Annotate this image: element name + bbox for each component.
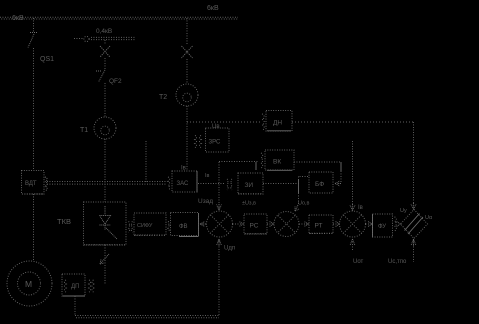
vertical to phase unit — [413, 122, 415, 203]
arrow mark on stub — [100, 254, 109, 264]
wire QF1 to ZAS y183 — [47, 181, 167, 183]
bus 6kV top — [0, 16, 238, 18]
stub vertical x146 — [145, 141, 147, 183]
svg-text:Iв: Iв — [205, 173, 210, 179]
summer circle2 — [274, 212, 299, 237]
box FV — [171, 213, 199, 236]
svg-text:Uзад: Uзад — [198, 198, 213, 205]
wire DP down — [74, 296, 76, 315]
winding bracket right of VDT — [45, 177, 47, 191]
svg-text:ЗАС: ЗАС — [177, 181, 189, 187]
svg-text:Uα: Uα — [425, 215, 433, 221]
wire drop left — [33, 18, 35, 32]
coupling before ZI — [227, 179, 228, 190]
coupling brackets right of DP — [89, 280, 91, 292]
coupling SIFU-FV — [168, 222, 169, 232]
bottom feedback double line — [75, 315, 219, 317]
feedback up from bottom — [218, 239, 220, 315]
box FU — [373, 214, 393, 237]
wire ZAS to ZI — [198, 183, 224, 185]
box VDT (QF1 cell) — [22, 171, 45, 195]
svg-text:ДН: ДН — [273, 120, 282, 127]
svg-text:ЗРС: ЗРС — [209, 140, 222, 146]
circle3 top input — [352, 141, 354, 204]
wire T2 down — [186, 106, 188, 170]
VK right wire — [294, 161, 341, 163]
svg-text:М: М — [25, 279, 32, 289]
bracket VK — [261, 153, 263, 168]
wire T1 down — [104, 139, 106, 202]
breaker X mid — [100, 46, 110, 57]
box VK — [265, 150, 294, 170]
svg-text:6кВ: 6кВ — [207, 5, 219, 12]
BF left wire — [299, 176, 309, 178]
transformer T1 — [94, 117, 116, 139]
box SIFU — [134, 213, 166, 235]
Uzad arrow from VK line — [218, 162, 220, 203]
svg-text:QS1: QS1 — [40, 56, 54, 63]
box ZAS — [172, 171, 197, 192]
svg-text:Uдп: Uдп — [224, 246, 235, 252]
svg-text:Uу: Uу — [400, 208, 407, 214]
wire drop mid (0.4kV) — [104, 40, 106, 45]
svg-text:Uс,тпо: Uс,тпо — [388, 259, 407, 265]
summer circle3 — [340, 211, 366, 237]
phase shifter diamond — [401, 210, 428, 239]
circle3 output — [366, 223, 372, 225]
TV output stub — [104, 245, 106, 284]
vertical down to circle2 — [298, 179, 300, 193]
winding inside DP left — [64, 280, 66, 292]
svg-text:Iв: Iв — [181, 166, 186, 172]
svg-text:Т2: Т2 — [159, 94, 167, 101]
terminal circle on 0.4kV bus — [84, 36, 89, 41]
bracket DN — [262, 114, 264, 130]
svg-text:6кВ: 6кВ — [12, 15, 24, 22]
box DN — [266, 111, 292, 132]
arrow circle1 to FV — [200, 222, 206, 227]
voltage sensor line y122 — [187, 121, 260, 123]
svg-text:Uв: Uв — [212, 124, 220, 130]
svg-text:БФ: БФ — [315, 181, 324, 188]
thyristor exciter box TV — [84, 202, 127, 245]
svg-text:Iв: Iв — [358, 205, 363, 211]
circle2 output — [299, 223, 308, 225]
box DP (exciter winding) — [62, 274, 85, 296]
disconnector QF2 — [96, 70, 105, 82]
box ZRS — [206, 128, 230, 152]
svg-text:QF2: QF2 — [109, 78, 122, 85]
svg-text:Uот: Uот — [353, 259, 364, 265]
svg-text:±Uз,в: ±Uз,в — [242, 201, 256, 207]
svg-text:ФУ: ФУ — [378, 224, 386, 230]
svg-text:Uо,в: Uо,в — [298, 201, 310, 207]
svg-text:СИФУ: СИФУ — [137, 223, 153, 229]
motor M inner — [18, 272, 41, 295]
arrow into BF right — [335, 181, 341, 186]
diamond bottom stub — [413, 239, 415, 262]
wire ZI right — [263, 183, 299, 185]
disconnector QS1 — [28, 33, 37, 48]
coupling to ZRS — [195, 136, 197, 148]
coupling TV to SIFU — [129, 222, 130, 233]
svg-text:ЗИ: ЗИ — [245, 182, 254, 189]
motor M outer — [7, 261, 52, 306]
bracket ZAS — [168, 177, 170, 190]
svg-text:ДП: ДП — [71, 284, 79, 290]
box RT — [309, 215, 333, 234]
svg-text:ФВ: ФВ — [179, 224, 188, 230]
arrow RS to circle2 — [267, 223, 273, 225]
circle1 output — [233, 223, 244, 225]
bus 0.4kV — [74, 38, 83, 40]
svg-text:ВК: ВК — [273, 159, 281, 166]
thyristor symbol inside TV — [100, 206, 118, 239]
svg-text:ВДТ: ВДТ — [25, 181, 37, 187]
wire to motor — [33, 194, 35, 261]
dense box bottoms — [84, 194, 333, 245]
box ZI — [238, 173, 263, 194]
arrow into circle2 — [295, 205, 299, 211]
breaker X right — [182, 46, 193, 58]
summer circle1 — [207, 211, 233, 237]
transformer T2 — [176, 84, 198, 106]
svg-text:РТ: РТ — [315, 223, 323, 230]
arrow RT to circle3 — [333, 223, 339, 225]
arrow into diamond — [397, 222, 401, 227]
svg-text:РС: РС — [250, 223, 259, 230]
corner down x341 — [340, 162, 342, 171]
svg-text:Т1: Т1 — [80, 127, 88, 134]
line DN to right — [292, 121, 413, 123]
box RS — [244, 214, 267, 234]
wire drop right 6kV — [186, 18, 188, 45]
box BF — [309, 172, 333, 193]
arrow into diamond top — [411, 203, 416, 210]
coupling after FU — [395, 217, 397, 231]
svg-text:ТКВ: ТКВ — [57, 217, 71, 226]
wire — [33, 48, 35, 170]
svg-text:0,4кВ: 0,4кВ — [96, 28, 112, 35]
VK left wire to Uzad column — [219, 161, 258, 163]
DP box solid bottom — [63, 295, 85, 297]
circle3 bottom stub — [352, 239, 354, 250]
